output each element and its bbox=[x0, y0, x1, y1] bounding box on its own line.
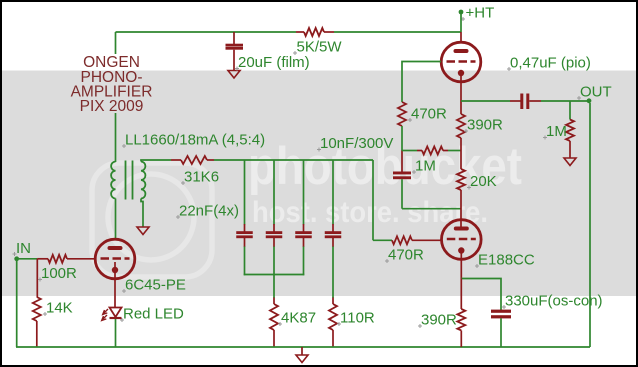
tube E188CC cathode dot bbox=[458, 247, 464, 253]
wire 20uF cap to ground bbox=[233, 50, 235, 70]
tube E188CC anode plate bbox=[454, 227, 469, 231]
resistor 390R (V1 cathode) bbox=[457, 114, 465, 138]
tube V1 grid (dashed) bbox=[447, 60, 476, 63]
wire transformer secondary bottom bbox=[141, 199, 143, 228]
capacitor 22nF #3 bbox=[295, 231, 312, 234]
svg-text:Red LED: Red LED bbox=[123, 306, 184, 323]
svg-text:22nF(4x): 22nF(4x) bbox=[179, 203, 239, 220]
svg-text:110R: 110R bbox=[340, 310, 375, 327]
svg-text:1M: 1M bbox=[415, 158, 436, 175]
svg-text:470R: 470R bbox=[388, 247, 424, 264]
wire 22nF cap4 to 110R bbox=[332, 247, 334, 299]
wire V1 grid left bbox=[402, 62, 441, 103]
wire 1M load to ground arrow bbox=[569, 141, 571, 158]
svg-text:host. store. share.: host. store. share. bbox=[252, 196, 488, 229]
svg-text:330uF(os-con): 330uF(os-con) bbox=[505, 293, 603, 310]
wire rail to V1 anode bbox=[460, 32, 462, 43]
wire to 470R grid stopper bbox=[373, 239, 392, 241]
resistor 1M (bridge) bbox=[402, 150, 417, 152]
ground symbol on bus bbox=[301, 347, 303, 355]
capacitor 20uF film bbox=[226, 44, 244, 47]
resistor 470R (E188CC grid) bbox=[392, 236, 412, 244]
wire B+ drop above title bbox=[115, 32, 117, 54]
node IN terminal dot bbox=[14, 256, 19, 261]
wire 22nF cap 1 top lead bbox=[244, 160, 246, 225]
wire 330uF to ground bus bbox=[500, 318, 502, 347]
resistor 20K bbox=[457, 169, 465, 190]
wire transformer secondary top to grid bus bbox=[141, 160, 171, 162]
resistor 100R bbox=[37, 258, 48, 260]
resistor 470R (V1 grid) bbox=[398, 102, 406, 126]
wire OUT return line bbox=[589, 103, 591, 347]
svg-text:1M: 1M bbox=[546, 123, 567, 140]
wire transformer primary bottom to 6C45 anode bbox=[115, 199, 117, 241]
transformer core lines bbox=[125, 161, 127, 200]
wire 10nF bottom down bbox=[401, 179, 403, 209]
wire 390R to ground bus bbox=[460, 331, 462, 348]
wire 1M node to 10nF bbox=[401, 151, 403, 172]
node OUT terminal dot bbox=[587, 98, 592, 103]
svg-text:390R: 390R bbox=[467, 117, 503, 134]
svg-text:+HT: +HT bbox=[466, 5, 495, 22]
photobucket watermark camera icon bbox=[92, 163, 212, 277]
tube V1 envelope bbox=[441, 42, 481, 82]
wire B+ rail right section bbox=[334, 31, 461, 33]
node +HT terminal dot bbox=[459, 10, 464, 15]
wire 110R to ground bus bbox=[332, 330, 334, 347]
wire 22nF cap 2 bottom lead bbox=[273, 247, 275, 276]
wire E188CC grid bias chain vertical bbox=[372, 160, 374, 240]
ground below 20uF cap bbox=[228, 71, 240, 79]
wire B+ rail left section bbox=[116, 31, 297, 33]
svg-text:6C45-PE: 6C45-PE bbox=[125, 277, 186, 294]
wire LED to ground bus bbox=[115, 319, 117, 347]
wire 20K to E188CC anode bbox=[460, 190, 462, 227]
wire B+ drop below title to transformer bbox=[115, 113, 117, 162]
svg-text:IN: IN bbox=[16, 240, 31, 257]
svg-text:E188CC: E188CC bbox=[478, 252, 535, 269]
wire +HT dot to rail bbox=[460, 13, 462, 32]
wire 22nF bottom bus bbox=[244, 274, 305, 276]
grey watermark band bbox=[0, 71, 638, 297]
svg-text:PIX 2009: PIX 2009 bbox=[80, 98, 144, 115]
tube 6C45-PE anode plate bbox=[108, 246, 123, 250]
svg-text:5K/5W: 5K/5W bbox=[297, 39, 343, 56]
svg-text:OUT: OUT bbox=[580, 84, 612, 101]
wire 10nF to anode chain bbox=[402, 208, 462, 210]
wire rail to 20uF cap bbox=[233, 32, 235, 44]
wire 14K to ground bus bbox=[36, 321, 38, 347]
transformer secondary winding bbox=[141, 162, 145, 199]
tube 6C45-PE envelope bbox=[95, 239, 135, 279]
capacitor 10nF/300V bbox=[393, 172, 411, 175]
wire 100R to 6C45 grid bbox=[67, 258, 96, 260]
wire 22nF cap 3 bottom lead bbox=[303, 247, 305, 276]
tube V1 anode plate bbox=[454, 49, 469, 53]
tube 6C45-PE grid (dashed) bbox=[101, 257, 130, 260]
tube E188CC envelope bbox=[442, 220, 482, 260]
svg-text:10nF/300V: 10nF/300V bbox=[320, 135, 393, 152]
capacitor 0,47uF coupling bbox=[520, 94, 523, 110]
wire junction to 14K bbox=[36, 259, 38, 297]
wire 390R to node bbox=[460, 138, 462, 169]
capacitor 330uF os-con bbox=[491, 310, 511, 313]
wire grid bus to x373 bbox=[214, 159, 373, 161]
LED D1 red bbox=[110, 308, 122, 318]
resistor 1M (load) bbox=[566, 120, 574, 141]
svg-text:390R: 390R bbox=[421, 312, 457, 329]
svg-text:14K: 14K bbox=[46, 300, 73, 317]
wire E188CC cathode down bbox=[460, 251, 462, 279]
wire IN dot down to ground bus bbox=[16, 261, 18, 347]
wire 1M load top lead bbox=[569, 101, 571, 120]
svg-text:31K6: 31K6 bbox=[184, 169, 219, 186]
capacitor 22nF #4 bbox=[325, 231, 342, 234]
tube 6C45-PE cathode dot bbox=[112, 267, 118, 273]
wire 22nF cap 3 top lead bbox=[303, 160, 305, 225]
wire bus to 4K87 bbox=[273, 275, 275, 299]
svg-text:LL1660/18mA (4,5:4): LL1660/18mA (4,5:4) bbox=[125, 132, 265, 149]
wire 22nF cap 1 bottom lead bbox=[244, 247, 246, 276]
ground below transformer secondary bbox=[137, 227, 149, 235]
capacitor 22nF #2 bbox=[266, 231, 283, 234]
capacitor 22nF #1 bbox=[236, 231, 253, 234]
wire cathode node to 330uF bbox=[461, 279, 501, 311]
wire 470R to 1M node bbox=[401, 126, 403, 151]
wire 6C45 cathode to LED bbox=[114, 262, 116, 308]
wire coupling cap to OUT bbox=[529, 100, 541, 102]
svg-text:20uF (film): 20uF (film) bbox=[238, 54, 310, 71]
tube V1 cathode dot bbox=[458, 70, 464, 76]
wire ground bus bbox=[16, 346, 590, 348]
tube E188CC grid (dashed) bbox=[447, 238, 476, 241]
svg-text:0,47uF (pio): 0,47uF (pio) bbox=[510, 55, 591, 72]
resistor 110R bbox=[329, 304, 337, 330]
resistor 14K bbox=[33, 297, 41, 321]
wire 22nF cap 4 top lead bbox=[332, 160, 334, 225]
LED emission arrows bbox=[103, 309, 108, 315]
svg-text:470R: 470R bbox=[411, 106, 447, 123]
resistor 31K6 bbox=[171, 159, 181, 161]
resistor 5K/5W bbox=[296, 31, 304, 33]
wire anode node to coupling cap bbox=[461, 100, 510, 102]
resistor 390R (E188CC cathode) bbox=[457, 309, 465, 330]
svg-text:4K87: 4K87 bbox=[281, 310, 316, 327]
wire V1 cathode down bbox=[460, 73, 462, 114]
resistor 4K87 bbox=[270, 304, 278, 330]
wire cathode to 390R bbox=[460, 279, 462, 310]
transformer LL1660 primary winding bbox=[111, 162, 115, 199]
wire IN dot to 100R bbox=[19, 258, 37, 260]
ground below 1M load bbox=[564, 158, 576, 166]
svg-text:100R: 100R bbox=[41, 265, 77, 282]
svg-text:20K: 20K bbox=[470, 173, 497, 190]
wire 4K87 to ground bus bbox=[273, 330, 275, 347]
wire 22nF cap 2 top lead bbox=[273, 160, 275, 225]
